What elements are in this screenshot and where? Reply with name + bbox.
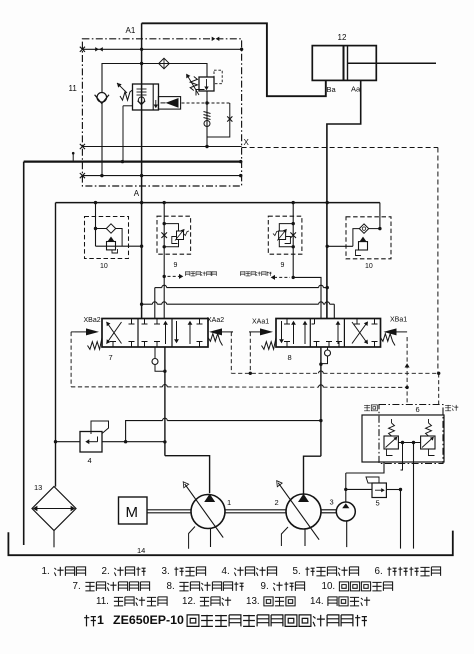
svg-text:11.: 11. xyxy=(96,596,109,607)
valve 10R boundary dashed box xyxy=(346,217,391,259)
valve 9R boundary dashed box xyxy=(268,216,302,254)
wire pump3 to pilot valve 6 xyxy=(346,462,384,473)
pump 1 suction xyxy=(210,529,212,548)
pilot XAa1 actuator xyxy=(260,328,273,335)
svg-text:A1: A1 xyxy=(126,26,136,35)
wire valve7 feed down xyxy=(164,347,166,456)
wire return y175.6 xyxy=(82,175,240,177)
valve 8 load check xyxy=(327,347,329,350)
9L spring xyxy=(184,231,190,236)
pilot actuator black arrow xyxy=(158,97,180,110)
valve 7 body xyxy=(102,319,208,348)
valve 8 middle ports T marks xyxy=(316,342,318,348)
svg-text:4: 4 xyxy=(88,456,92,465)
10R relief valve xyxy=(360,237,367,242)
relief valve 4 flag xyxy=(91,421,109,434)
wire 9R to valve8 port xyxy=(293,277,321,318)
wire spring drain to y161.6 xyxy=(123,105,133,107)
svg-text:1: 1 xyxy=(97,613,104,627)
svg-text:XBa1: XBa1 xyxy=(390,317,407,324)
svg-text:1.: 1. xyxy=(42,566,50,577)
svg-text:4.: 4. xyxy=(222,566,230,577)
relief valve 5 body xyxy=(372,483,386,498)
pump 1 flow triangle xyxy=(204,494,215,502)
10R link xyxy=(353,229,359,247)
svg-text:5.: 5. xyxy=(293,566,301,577)
cooler 13 arrows xyxy=(36,508,72,510)
svg-text:Aa: Aa xyxy=(351,85,361,94)
x-mark left edge P line xyxy=(80,47,85,52)
valve 8 right spring xyxy=(381,334,396,346)
svg-text:XAa2: XAa2 xyxy=(207,317,224,324)
pilot box check poppet xyxy=(138,97,144,103)
valve 7 left section cross arrows xyxy=(107,322,122,344)
10L relief valve xyxy=(108,237,115,242)
text arm-in label xyxy=(364,405,377,411)
pilot reducing valve right xyxy=(421,436,435,449)
svg-text:8.: 8. xyxy=(167,581,175,592)
wire 10L out y246.2 xyxy=(96,245,142,247)
pilot line X down to pilot valve xyxy=(438,373,440,404)
svg-text:12: 12 xyxy=(338,33,347,42)
valve 10L boundary dashed box xyxy=(85,217,129,259)
wire cooler to tank xyxy=(53,531,55,548)
left spring vertical xyxy=(389,423,395,436)
orifice mark on top edge xyxy=(212,37,216,41)
9L drain bracket xyxy=(172,237,178,244)
wire pilot supply vertical x55.5 xyxy=(55,203,57,487)
svg-text:M: M xyxy=(126,504,139,521)
pilot reducing valve left xyxy=(384,436,398,449)
wire relief branch up and across y420.6 xyxy=(126,421,163,442)
9R inner loop xyxy=(279,224,293,231)
pilot dashed link to relief xyxy=(182,102,230,104)
wire feed jog to pump2 xyxy=(304,456,321,493)
valve 8 left section arrows xyxy=(281,321,283,341)
svg-text:14: 14 xyxy=(137,546,145,555)
dashed arrow 9R xyxy=(272,276,275,280)
wire X pilot gallery y146.5 xyxy=(82,146,241,148)
text to-arm-main-valve-2 xyxy=(240,272,271,276)
junction dot X gallery xyxy=(205,145,208,148)
pump 2 suction xyxy=(304,529,306,546)
wire left frame down to tank xyxy=(23,162,25,545)
pilot box spring hatches xyxy=(137,88,147,90)
pilot XBa1 actuator xyxy=(384,328,397,335)
vent spring symbol xyxy=(204,112,211,114)
valve 8 left spring xyxy=(262,338,277,350)
cylinder U12 rod xyxy=(348,62,437,64)
right drain foot xyxy=(429,449,435,456)
relief pilot dashed box xyxy=(214,70,222,84)
wire X pilot dashed xyxy=(242,147,438,149)
pilot line XBa2 dashed xyxy=(71,331,75,333)
filter diamond on y63.5 xyxy=(159,58,170,69)
valve 7 middle ports T marks xyxy=(144,319,146,325)
wire pump3 output up xyxy=(345,473,347,502)
wire relief down / pilot gallery xyxy=(206,91,208,147)
svg-text:9: 9 xyxy=(174,262,178,269)
9R drain bracket xyxy=(285,237,291,244)
pump 2 case drain xyxy=(281,527,288,546)
pilot-operated check main box xyxy=(133,84,159,110)
pump 3 flow triangle xyxy=(342,503,349,508)
svg-text:3: 3 xyxy=(330,498,334,507)
svg-text:13.: 13. xyxy=(246,596,260,607)
10L link to relief xyxy=(116,229,122,247)
9L orifice x-mark xyxy=(161,232,167,238)
9R output node xyxy=(292,276,295,279)
left drain foot xyxy=(387,449,393,456)
pump 1 variable arrow xyxy=(185,484,224,538)
relief valve block body xyxy=(199,77,214,91)
junction dot xyxy=(140,62,143,65)
relief spring W left of pilot box xyxy=(120,90,133,100)
pump 3 suction xyxy=(346,521,348,547)
wire x154.8 down to valve7 xyxy=(154,288,156,319)
valve 8 middle arrows xyxy=(314,319,316,325)
9R orifice x-mark xyxy=(290,232,296,238)
cooler 13 diamond xyxy=(32,487,76,531)
valve 8 right ports T marks xyxy=(374,319,376,325)
vent branch right with orifice xyxy=(207,103,230,137)
svg-text:10: 10 xyxy=(365,263,373,270)
valve 7 load check xyxy=(154,347,156,359)
svg-text:XAa1: XAa1 xyxy=(252,319,269,326)
svg-text:10.: 10. xyxy=(322,581,336,592)
svg-text:7.: 7. xyxy=(73,581,81,592)
wire into 10L xyxy=(95,203,97,247)
valve 7 left ports T marks xyxy=(131,319,133,325)
pilot valve 6 dash-dot box xyxy=(379,405,443,464)
svg-text:2.: 2. xyxy=(102,566,110,577)
10L check diamond xyxy=(96,228,107,230)
svg-text:6: 6 xyxy=(416,405,420,414)
pump 2 circle xyxy=(286,494,321,529)
svg-text:X: X xyxy=(244,138,250,147)
caption title line xyxy=(84,615,96,627)
orifice mark on P line xyxy=(95,47,99,51)
svg-text:8: 8 xyxy=(288,353,292,362)
valve 7 right ports T marks xyxy=(199,319,201,325)
text to-arm-main-valve-1 xyxy=(185,272,216,276)
wire main supply y161.6 thick xyxy=(24,161,241,163)
relief valve 5 arrow xyxy=(375,489,384,491)
tank 14 boundary xyxy=(8,531,452,556)
valve block 11 boundary box xyxy=(82,39,241,186)
pilot XAa2 actuator xyxy=(209,328,222,335)
cylinder U12 piston xyxy=(343,46,345,81)
pilot valve center gallery xyxy=(398,442,420,444)
wire into 10R xyxy=(379,203,381,229)
wire A1 vertical main xyxy=(141,23,143,318)
pilot bus2 dashed XBa2-XBa1 xyxy=(71,386,162,388)
pump 1 circle xyxy=(191,495,225,529)
wire through 9L xyxy=(163,203,165,319)
relief drain foot xyxy=(196,90,205,96)
wire check-valve branch y63.5 xyxy=(102,64,207,93)
9L inner loop xyxy=(164,224,178,231)
wire Aa-to-valve7 y288 xyxy=(155,287,162,289)
svg-text:9: 9 xyxy=(281,262,285,269)
svg-text:1: 1 xyxy=(227,498,231,507)
svg-text:ZE650EP-10: ZE650EP-10 xyxy=(113,613,184,627)
motor M box xyxy=(119,497,148,524)
shaft pump2-pump3 xyxy=(321,509,336,511)
svg-text:2: 2 xyxy=(275,498,279,507)
wire A1 supply top xyxy=(142,23,326,96)
9R valve box xyxy=(279,231,286,240)
valve 7 right section arrows xyxy=(176,321,178,341)
shaft pump1-pump2 xyxy=(225,509,286,511)
10R check diamond xyxy=(369,228,380,230)
text arm-out label xyxy=(445,405,458,411)
wire pump3 to relief 5 xyxy=(346,488,372,490)
pilot box right cell arrow xyxy=(155,100,157,107)
pilot line XAa2 dashed xyxy=(231,331,233,333)
relief valve 5 flag xyxy=(366,477,379,483)
svg-text:5: 5 xyxy=(376,499,380,508)
relief valve 4 arrow xyxy=(87,441,98,443)
relief valve 4 body xyxy=(80,432,102,453)
9L valve box xyxy=(177,231,184,240)
svg-text:7: 7 xyxy=(109,353,113,362)
pilot pump 3 circle xyxy=(336,502,355,521)
svg-text:10: 10 xyxy=(100,263,108,270)
wire distribution line y202.6 xyxy=(56,202,380,204)
valve 7 right spring xyxy=(208,334,223,346)
wire feed jog to pump1 xyxy=(165,456,210,494)
tick stub on supply line xyxy=(72,153,74,161)
wire 10R out y246.3 xyxy=(327,245,353,247)
shaft M-pump1 xyxy=(147,509,191,511)
pilot line XBa1 dashed down to pilot valve xyxy=(406,337,408,405)
pilot line XAa1 dashed xyxy=(249,332,251,373)
dashed vent line junction xyxy=(205,101,208,104)
pilot XBa2 actuator xyxy=(86,328,99,335)
wire through 9R xyxy=(292,203,294,278)
valve 7 middle bypass arrow up xyxy=(165,323,167,344)
9L output node xyxy=(163,275,166,278)
pilot valve 6 outer box xyxy=(362,415,444,462)
valve 7 left spring xyxy=(88,338,103,350)
wire valve8 feed down xyxy=(320,347,322,456)
svg-text:13: 13 xyxy=(34,483,42,492)
svg-text:11: 11 xyxy=(69,84,78,93)
pilot bus1 dashed XAa2-XAa1-X xyxy=(231,372,318,374)
svg-text:12.: 12. xyxy=(182,596,196,607)
valve 8 body xyxy=(276,319,381,348)
valve 9L boundary dashed box xyxy=(157,216,191,254)
relief valve block: spring xyxy=(190,77,197,91)
valve 8 left ports T marks xyxy=(286,319,288,325)
dashed arrow to main valve one xyxy=(168,275,180,277)
svg-text:14.: 14. xyxy=(310,596,324,607)
pump 2 variable arrow xyxy=(278,483,319,540)
wire check valve down to y175.6 xyxy=(101,104,103,176)
junction dots P line xyxy=(140,48,143,51)
wire A-to-valve8 y304.4 xyxy=(142,303,153,305)
svg-text:A: A xyxy=(134,189,140,198)
svg-text:9.: 9. xyxy=(261,581,269,592)
wire relief 4 output xyxy=(102,441,165,443)
svg-text:3.: 3. xyxy=(162,566,170,577)
9R spring xyxy=(273,231,279,236)
vent poppet circle xyxy=(204,121,210,127)
right spring vertical xyxy=(426,423,432,436)
wire P line y49 xyxy=(82,48,241,50)
wire pilot supply to relief 4 xyxy=(54,440,57,443)
wire relief 5 to tank xyxy=(386,489,400,491)
svg-text:6.: 6. xyxy=(375,566,383,577)
pump 2 flow triangle xyxy=(298,494,309,502)
check valve CV11 circle xyxy=(97,93,107,103)
pump 1 case drain xyxy=(189,527,195,549)
valve 8 right section cross arrows xyxy=(352,322,368,344)
cylinder U12 body xyxy=(312,46,376,81)
wire Aa work line down xyxy=(327,80,361,318)
wire pilot valve drains to tank xyxy=(402,443,404,449)
svg-text:Ba: Ba xyxy=(327,85,337,94)
svg-text:XBa2: XBa2 xyxy=(84,317,101,324)
